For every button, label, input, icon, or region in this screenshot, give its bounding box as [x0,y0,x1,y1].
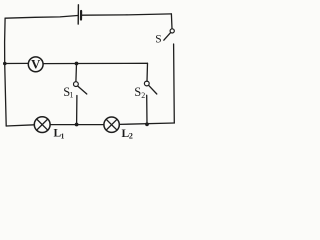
wire top right segment [82,14,171,15]
wire middle: voltmeter to S1 junction [43,63,76,65]
switch S blade (open, down-left) [164,33,171,41]
junction node: middle-left [3,62,7,66]
wire S1 branch upper [75,64,78,82]
wire right lower [173,44,176,123]
wire S1 branch lower [76,96,78,125]
switch S pivot circle [170,29,174,33]
battery cell short plate (-) [80,11,82,20]
switch S1 blade (open, down-right) [78,86,87,94]
wire middle: S1 junction to S2 corner [77,62,148,64]
switch S2 pivot circle [144,81,149,86]
wire bottom: right corner to lamp L2 [119,123,174,124]
switch S1 pivot circle [74,82,79,87]
wire top left segment [5,16,78,19]
wire left vertical [5,18,7,126]
lamp L2 [104,117,119,132]
svg-text:V: V [31,57,41,71]
switch S2 blade (open, down-right) [149,85,157,94]
voltmeter U1 circle [28,57,43,72]
wire bottom: L2 to L1 [50,124,104,126]
junction node: middle at S1 [75,62,79,66]
svg-text:L1: L1 [54,128,65,141]
wire S2 branch upper [146,63,149,81]
wire right upper (to switch S) [170,14,173,29]
junction node: bottom at S2 [145,122,149,126]
svg-text:S1: S1 [63,85,73,100]
wire bottom: L1 to left corner [6,125,34,126]
junction node: bottom at S1 [75,123,79,127]
battery cell long plate (+) [77,5,79,24]
wire middle: left to voltmeter [5,62,29,64]
svg-text:L2: L2 [122,128,133,141]
svg-text:S2: S2 [134,85,145,100]
lamp L1 [34,117,50,133]
svg-text:S: S [155,34,161,46]
wire S2 branch lower [146,95,148,124]
